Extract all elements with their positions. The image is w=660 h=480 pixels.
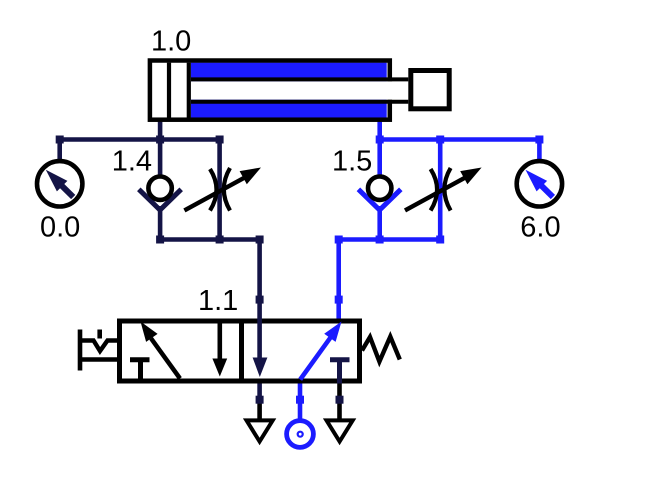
source stub below valve	[298, 384, 303, 421]
right box navy down arrow	[257, 319, 262, 361]
cylinder 1.0	[150, 61, 449, 120]
left box diagonal arrow	[151, 338, 180, 378]
svg-text:1.0: 1.0	[151, 26, 191, 58]
flow control valve 1.5 (check + throttle, right)	[339, 140, 482, 240]
left box down arrow	[218, 321, 223, 362]
flow control valve 1.4 (check + throttle, left)	[139, 140, 261, 240]
svg-text:1.5: 1.5	[332, 145, 372, 177]
gauge 0.0 (left manometer)	[37, 161, 82, 206]
manual override (detent lever, left of valve)	[80, 330, 117, 371]
throttle arcs	[210, 169, 217, 211]
junction squares blue	[296, 136, 543, 404]
throttle branch wire	[438, 140, 443, 240]
left box blocked port T	[130, 357, 150, 362]
valve 1.1 (3/2-way, two positions)	[120, 319, 360, 384]
wire: left bus	[60, 140, 220, 161]
throttle arcs	[431, 169, 438, 211]
divider	[239, 319, 244, 384]
svg-text:1.4: 1.4	[112, 145, 152, 177]
right box blocked port T	[330, 357, 350, 362]
check branch wire	[377, 140, 382, 177]
compressed air source	[287, 421, 314, 448]
gauge 6.0 (right manometer)	[517, 161, 562, 206]
wire: drop from 1.5 to valve	[336, 240, 341, 322]
throttle arrow	[405, 177, 467, 211]
svg-text:6.0: 6.0	[520, 212, 560, 244]
bottom wire	[160, 237, 260, 242]
svg-text:1.1: 1.1	[198, 285, 238, 317]
check ball	[148, 177, 171, 200]
bottom wire	[339, 237, 441, 242]
exhaust triangle right	[327, 420, 353, 441]
spring return (right of valve)	[362, 337, 400, 362]
check branch wire	[158, 140, 163, 177]
right box blue diagonal arrow	[300, 337, 331, 380]
wire: drop from 1.4 to valve	[257, 240, 262, 322]
throttle branch wire	[217, 140, 222, 240]
check seat V	[358, 189, 400, 210]
exhaust triangle left	[247, 420, 273, 441]
wire: right bus	[380, 140, 540, 161]
check ball	[368, 177, 391, 200]
svg-text:0.0: 0.0	[40, 212, 80, 244]
wire: cylinder right port	[377, 120, 382, 140]
exhaust stub left below valve	[257, 384, 262, 420]
throttle arrow	[184, 177, 246, 211]
junction squares navy	[56, 136, 344, 404]
check seat V	[139, 189, 181, 210]
wire: cylinder left port	[158, 120, 163, 140]
exhaust stub right below valve	[337, 384, 342, 420]
